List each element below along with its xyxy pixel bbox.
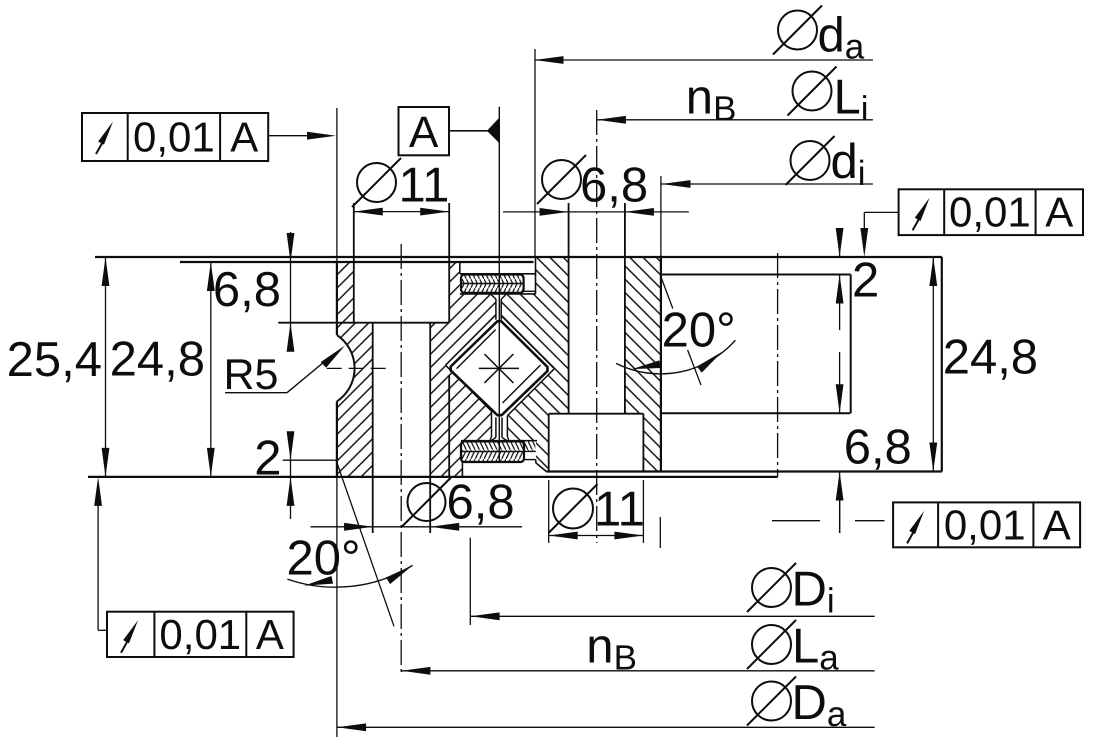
white cutouts: roller pocket [446,315,555,441]
bottom seal pocket outline [461,441,546,477]
datum axis line [498,107,500,462]
bore line with R5 groove [337,262,355,477]
svg-text:6,8: 6,8 [213,263,281,317]
white cutouts: bottom seal pocket [462,441,546,477]
svg-text:0,01: 0,01 [944,502,1026,549]
roller centre mark (star) [479,354,519,383]
bore extension line bottom [336,477,338,737]
svg-text:6,8: 6,8 [844,421,912,475]
dimension diam d_a [535,6,873,258]
svg-text:0,01: 0,01 [949,189,1031,236]
white cutouts: seal stems [496,294,502,441]
leader top left frame [268,132,336,140]
inner ring OD surface lower [448,376,450,477]
runout frame top left [82,113,268,161]
bolt hole centreline right [596,110,598,543]
svg-text:6,8: 6,8 [447,476,515,530]
bottom face line [88,476,778,478]
OD recess vertical [850,275,852,414]
bolt hole centreline left [400,244,402,676]
dimension diam 11 bottom [549,480,645,543]
dimension n_B and diam L_a [401,619,874,677]
svg-text:0,01: 0,01 [159,611,241,658]
white cutouts: counterbore 11 top [354,256,449,323]
leader bottom right frame [772,490,885,533]
svg-text:20°: 20° [287,532,361,586]
white cutouts: bore 6,8 right [569,256,625,414]
white cutouts: bore 6,8 left [373,323,431,477]
20 deg bottom contact line [336,461,394,626]
svg-text:2: 2 [852,254,879,308]
inner ring section hatch [337,262,497,477]
svg-text:0,01: 0,01 [133,114,215,161]
leader top right frame [860,212,898,257]
datum A box [399,107,450,157]
top face line [95,256,942,258]
extension lines top holes [354,203,625,262]
svg-text:A: A [1045,189,1073,236]
svg-text:A: A [230,114,258,161]
top seal pocket outline [460,257,536,294]
counterbore 11 top: bottom [278,322,449,324]
dimension diam D_a [337,676,875,734]
raceway gap lines around roller [446,315,555,441]
seal stem walls [491,295,507,441]
svg-text:A: A [1043,502,1071,549]
svg-text:A: A [256,611,284,658]
dimension diam d_i [661,135,873,257]
svg-text:25,4: 25,4 [7,333,102,387]
white cutouts: top seal pocket [460,274,536,294]
dimension 2 right [836,228,880,330]
runout frame bottom right [893,502,1080,549]
bore extension line top [336,108,338,262]
counterbore 11 top: right edge [448,203,450,323]
right silhouette edge [941,257,943,472]
svg-text:24,8: 24,8 [110,333,205,387]
datum A leader and triangle [449,118,499,144]
groove centre dash line [327,367,386,369]
dimension diam 6,8 top [503,155,689,216]
top seal strip [461,275,536,293]
svg-text:20°: 20° [662,304,736,358]
dimension 24,8 left [110,262,215,477]
counterbore 11 bottom edges [549,414,644,472]
OD extension stub below [659,517,661,548]
OD line right ring [660,257,662,472]
roller behind: edge lines [457,330,541,403]
counterbore silhouette line right [661,412,850,414]
silhouette centreline right [777,253,779,477]
svg-text:11: 11 [399,159,450,213]
runout frame bottom left [107,611,294,658]
dimension n_B and diam L_i [597,67,873,129]
dimension 2 left [254,431,336,519]
20 deg bottom arc [287,562,414,590]
20 deg top arc [616,340,735,374]
bore 6,8 right edges [569,203,625,414]
svg-text:11: 11 [594,482,645,536]
svg-text:R5: R5 [224,351,279,399]
runout frame top right [899,189,1083,236]
dimension 25,4 [7,257,110,477]
white cutouts: counterbore 11 bottom [549,414,644,472]
bottom seal strip [461,441,536,462]
crossed roller (diamond) [451,321,548,415]
white cutouts: R5 groove [275,328,355,408]
svg-text:6,8: 6,8 [580,158,648,212]
inner ring top face line [180,261,534,263]
dimension 24,8 right [929,257,1038,472]
outer ring section hatch [501,257,661,472]
R5 label and leader [224,343,348,399]
20 deg top contact line [661,276,701,385]
dimension 6,8 right [836,352,912,533]
counterbore 11 top: left edge [353,203,355,323]
svg-text:2: 2 [254,432,281,486]
OD recess line top right [661,274,851,276]
leader bottom left frame [94,477,107,630]
svg-text:24,8: 24,8 [943,330,1038,384]
dimension 6,8 left [213,232,295,352]
svg-text:A: A [409,108,439,157]
outer ring bottom face line [546,470,942,472]
20 deg top label [662,304,736,358]
dimension diam 11 top [352,158,449,216]
dimension diam D_i [470,538,874,625]
dimension diam 6,8 bottom [311,476,523,531]
bore 6,8 left edges [373,323,431,533]
20 deg bottom label [287,532,361,586]
